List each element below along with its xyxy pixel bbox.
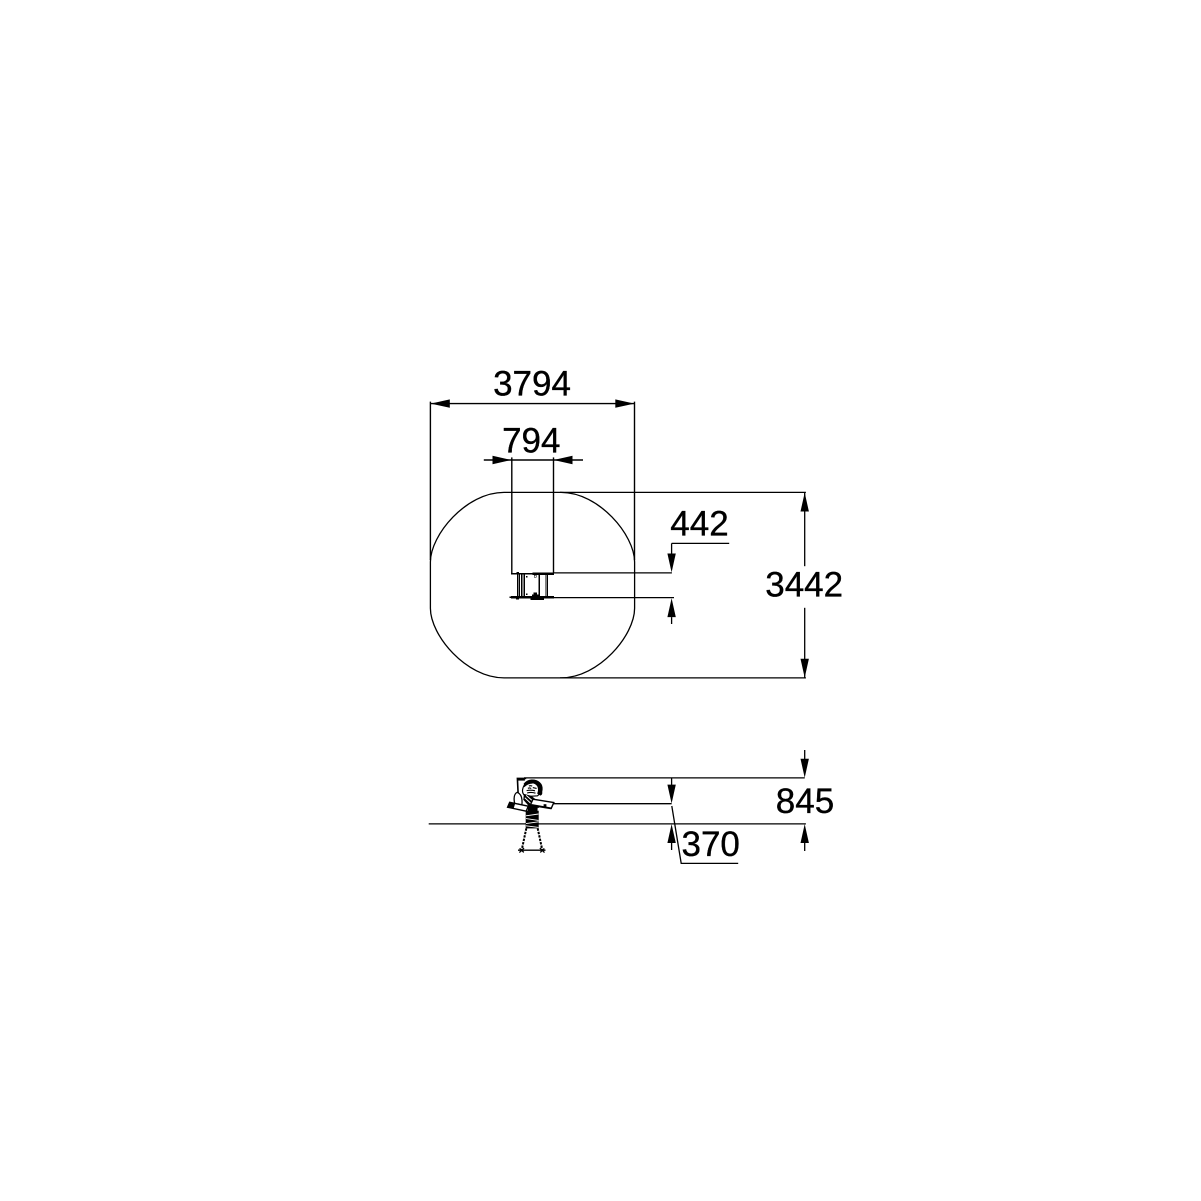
3442 upper arrowhead (pointing up) [801,493,809,512]
anchor tick right [540,848,545,853]
extension line right of 3794 [634,402,636,560]
safety zone outline (rounded square) [430,492,634,678]
ladder rails right [538,575,540,596]
leg right [538,828,543,849]
dimension line 3794 [431,403,635,405]
mitten dark [515,803,521,808]
845 lower arrow tail [804,843,806,851]
442 lower arrowhead (pointing up) [667,598,675,617]
panel top dark edge [518,779,525,781]
anchor tick left [519,848,524,853]
370 lower arrowhead (pointing up) [667,824,675,843]
845 lower arrowhead (pointing up) [801,824,809,843]
bolt dot top-right (ring) [534,575,537,577]
370 upper arrowhead (pointing down) [667,785,675,804]
back panel [517,778,526,795]
extension line left of 3794 [429,402,431,560]
head (face) [522,780,541,796]
hood brim stroke [524,783,533,787]
rocker plan view [510,572,554,600]
seat board right [531,799,554,808]
column left edge [511,457,513,573]
reference line at figure head (845 upper) [524,777,805,779]
3442 lower arrowhead (pointing down) [801,659,809,678]
hood tip [538,789,543,796]
seat board dark mark [544,804,547,807]
top bar [511,573,533,575]
bolt dot top-left [526,576,527,577]
spring rocker figure (side view) [508,778,554,852]
svg-text:370: 370 [682,825,740,864]
845 upper arrow tail [804,750,806,759]
370 lower arrow tail [671,843,673,850]
370 upper arrow tail [671,778,673,785]
442 lower arrow tail [671,617,673,624]
left arm [514,792,522,808]
dimension line 3442 upper segment [804,493,806,566]
base line [518,849,546,851]
extension line bottom (zone bottom edge to 3442 dim) [560,677,806,679]
column right edge [553,457,555,572]
foot board left [508,802,529,811]
face features [527,786,537,794]
svg-text:442: 442 [670,505,728,544]
370 leader line [672,806,738,863]
spring gaps [526,814,539,827]
svg-text:3442: 3442 [765,566,843,605]
reference line at rocker top (442 upper) [554,572,672,574]
bolt dot bottom-left [526,593,528,595]
dimension line 3442 lower segment [804,608,806,678]
reference line at rocker bottom (442 lower) [554,597,674,599]
dimension line 794 [484,459,583,461]
leader underline 442 [672,542,730,544]
arrowhead 3794 right [615,399,634,407]
svg-text:3794: 3794 [493,365,571,404]
ground line [429,823,806,825]
svg-text:845: 845 [776,782,834,821]
spring coil [526,811,539,829]
845 upper arrowhead (pointing down) [801,759,809,778]
svg-text:794: 794 [502,422,560,461]
torso white slashes [525,795,537,805]
torso dark [523,794,539,808]
ladder rails left [517,575,518,596]
hood dark crescent [524,779,543,795]
arrowhead 794 right (pointing left) [554,456,573,464]
leg left [522,828,527,849]
arrowhead 3794 left [431,399,450,407]
442 upper arrowhead (pointing down) [667,554,675,573]
arrowhead 794 left (pointing right) [493,456,512,464]
reference line at seat (370 upper) [554,803,672,805]
bottom bar [511,596,554,599]
extension line top (zone top edge to 3442 dim) [560,491,806,493]
seat board lower edge [532,805,552,808]
442 upper arrow tail [671,543,673,554]
saddle dark [528,805,538,812]
foot dark blob [508,802,516,808]
